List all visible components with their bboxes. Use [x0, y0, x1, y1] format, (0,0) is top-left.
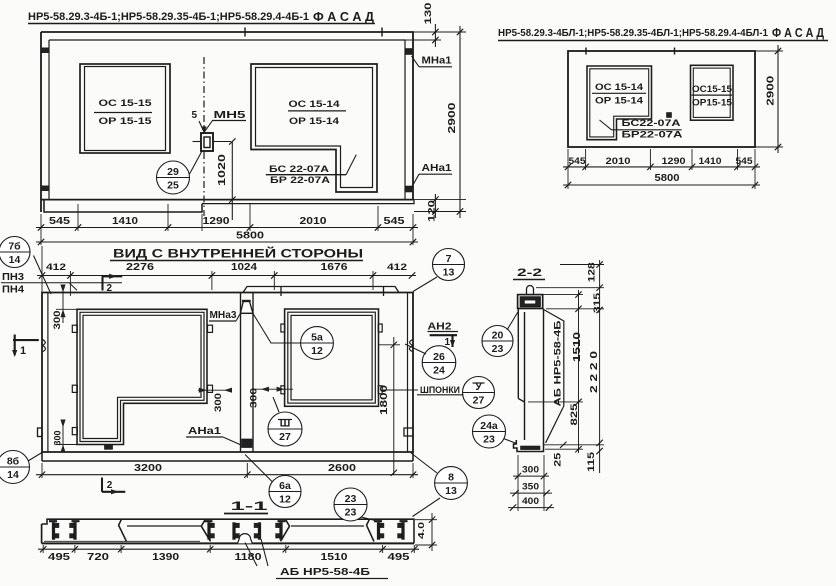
svg-text:315: 315: [592, 293, 602, 313]
svg-text:400: 400: [522, 496, 539, 507]
svg-text:БС22-07А: БС22-07А: [622, 118, 681, 129]
svg-text:825: 825: [569, 403, 580, 426]
svg-text:НР5-58.29.3-4Б-1;НР5-58.29.35-: НР5-58.29.3-4Б-1;НР5-58.29.35-4Б-1;НР5-5…: [28, 11, 309, 23]
svg-text:3200: 3200: [134, 463, 163, 474]
svg-text:300: 300: [52, 311, 62, 330]
svg-text:495: 495: [48, 552, 71, 563]
svg-text:АБ НР5-58-4Б: АБ НР5-58-4Б: [553, 320, 564, 406]
svg-text:14: 14: [7, 469, 19, 481]
svg-text:2276: 2276: [126, 262, 155, 273]
svg-text:12: 12: [311, 345, 323, 357]
svg-text:23: 23: [345, 507, 357, 519]
svg-text:Ф А С А Д: Ф А С А Д: [313, 10, 374, 24]
svg-text:495: 495: [388, 552, 411, 563]
svg-text:АНа1: АНа1: [422, 163, 453, 174]
svg-text:545: 545: [49, 216, 71, 227]
svg-text:БС 22-07А: БС 22-07А: [269, 164, 329, 175]
svg-text:2010: 2010: [606, 156, 631, 167]
svg-text:2900: 2900: [447, 102, 458, 134]
svg-text:24а: 24а: [480, 420, 498, 432]
svg-text:БР22-07А: БР22-07А: [622, 130, 683, 141]
svg-text:4.0: 4.0: [416, 522, 426, 539]
svg-text:ОР 15-14: ОР 15-14: [595, 96, 643, 106]
svg-text:ВИД С ВНУТРЕННЕЙ СТОРОНЫ: ВИД С ВНУТРЕННЕЙ СТОРОНЫ: [113, 248, 363, 261]
svg-text:7б: 7б: [8, 241, 21, 253]
svg-text:300: 300: [249, 388, 259, 408]
svg-text:24: 24: [433, 365, 445, 377]
svg-text:14: 14: [9, 254, 21, 266]
svg-text:545: 545: [736, 156, 754, 167]
svg-text:25: 25: [167, 180, 179, 192]
svg-text:ОР 15-15: ОР 15-15: [99, 116, 153, 127]
svg-text:23: 23: [345, 493, 357, 505]
svg-text:1410: 1410: [699, 156, 722, 167]
svg-text:115: 115: [586, 452, 596, 472]
svg-text:7: 7: [446, 253, 452, 265]
svg-text:Ф А С А Д: Ф А С А Д: [772, 26, 824, 40]
svg-text:1: 1: [445, 337, 451, 348]
svg-text:128: 128: [587, 262, 597, 282]
svg-text:1510: 1510: [572, 331, 583, 362]
svg-text:412: 412: [46, 262, 66, 273]
svg-text:АН2: АН2: [428, 322, 453, 333]
svg-text:АБ НР5-58-4Б: АБ НР5-58-4Б: [280, 566, 371, 578]
svg-text:300: 300: [53, 431, 63, 446]
svg-text:13: 13: [445, 485, 457, 497]
svg-text:5800: 5800: [655, 173, 680, 184]
svg-text:ОС 15-14: ОС 15-14: [595, 82, 643, 92]
svg-text:23: 23: [492, 343, 504, 355]
svg-text:2010: 2010: [300, 216, 328, 227]
svg-text:ОС15-15: ОС15-15: [692, 84, 732, 94]
svg-text:1676: 1676: [321, 262, 349, 273]
svg-text:27: 27: [279, 431, 291, 443]
svg-text:1: 1: [20, 345, 26, 357]
svg-text:БР 22-07А: БР 22-07А: [270, 175, 330, 186]
svg-text:8: 8: [448, 472, 454, 484]
svg-text:5а: 5а: [311, 332, 323, 344]
svg-text:1-1: 1-1: [231, 499, 269, 513]
svg-text:МНа3: МНа3: [210, 310, 237, 321]
svg-text:5800: 5800: [236, 231, 265, 242]
svg-text:300: 300: [213, 393, 223, 412]
svg-text:МНа1: МНа1: [422, 56, 452, 67]
svg-text:ОС 15-15: ОС 15-15: [99, 98, 153, 109]
svg-text:1510: 1510: [321, 552, 349, 563]
svg-text:1290: 1290: [203, 216, 231, 227]
svg-text:ОР 15-14: ОР 15-14: [289, 116, 340, 127]
svg-text:2: 2: [107, 480, 113, 491]
svg-text:2900: 2900: [766, 75, 777, 106]
svg-text:26: 26: [433, 351, 445, 363]
svg-text:АНа1: АНа1: [188, 426, 222, 437]
svg-text:ОС 15-14: ОС 15-14: [289, 99, 341, 110]
svg-text:130: 130: [423, 3, 434, 25]
svg-text:8б: 8б: [7, 456, 20, 468]
svg-text:1024: 1024: [231, 262, 258, 273]
svg-text:1180: 1180: [235, 552, 263, 563]
svg-text:23: 23: [483, 434, 495, 446]
svg-text:5: 5: [192, 110, 198, 121]
svg-text:НР5-58.29.3-4БЛ-1;НР5-58.29.35: НР5-58.29.3-4БЛ-1;НР5-58.29.35-4БЛ-1;НР5…: [498, 27, 768, 39]
svg-text:13: 13: [443, 267, 455, 279]
svg-text:ПН3: ПН3: [2, 272, 24, 283]
svg-text:1290: 1290: [662, 156, 686, 167]
svg-text:МН5: МН5: [214, 110, 247, 121]
svg-text:ОР15-15: ОР15-15: [692, 98, 732, 108]
svg-text:20: 20: [492, 330, 504, 342]
svg-text:12: 12: [279, 494, 291, 506]
svg-text:300: 300: [522, 465, 539, 476]
svg-text:29: 29: [167, 166, 179, 178]
svg-text:2600: 2600: [328, 463, 357, 474]
svg-text:2-2: 2-2: [517, 267, 542, 279]
svg-text:545: 545: [384, 216, 406, 227]
svg-text:1410: 1410: [112, 216, 139, 227]
svg-text:412: 412: [387, 262, 407, 273]
svg-text:1800: 1800: [379, 384, 390, 415]
svg-text:350: 350: [522, 482, 539, 493]
svg-text:1020: 1020: [217, 153, 228, 186]
svg-text:120: 120: [427, 200, 438, 222]
svg-text:6а: 6а: [279, 480, 291, 492]
svg-text:720: 720: [87, 552, 110, 563]
svg-text:ПН4: ПН4: [2, 285, 24, 296]
svg-text:25: 25: [553, 453, 563, 467]
svg-text:545: 545: [569, 156, 587, 167]
svg-text:27: 27: [473, 395, 485, 407]
svg-text:1390: 1390: [152, 552, 180, 563]
svg-text:2 2 2 0: 2 2 2 0: [589, 350, 600, 393]
